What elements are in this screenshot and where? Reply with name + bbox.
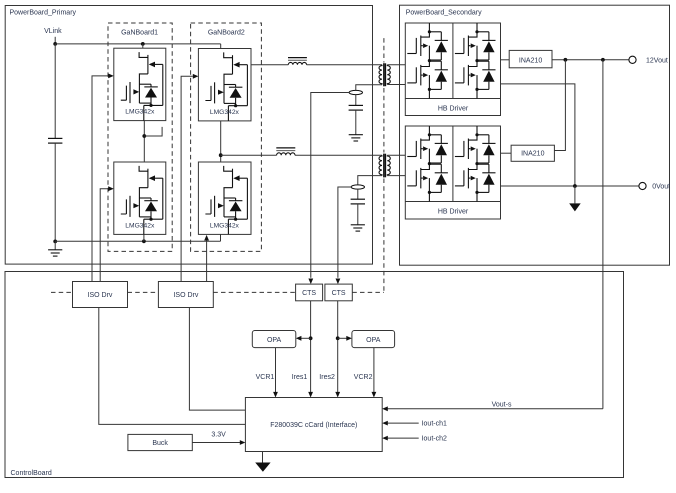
wire C1 to ground (355, 110, 357, 135)
wire gate D (ISO2 to L2) (206, 240, 208, 282)
wire inductor Lb to T2 primary (295, 154, 382, 156)
OPA2 input arrowhead (346, 336, 352, 341)
OPA1 input arrowhead (296, 336, 302, 341)
wire Buck 3.3V to F28 (192, 442, 241, 444)
GaNBoard2 dashed box (191, 23, 262, 251)
wire phase2 node to inductor Lb (221, 154, 277, 156)
isolation boundary dashed vertical seg3 (383, 179, 385, 293)
svg-text:HB Driver: HB Driver (438, 208, 469, 215)
transformer T1 (379, 65, 382, 85)
gate B arrowhead (108, 186, 114, 191)
Iout-ch1 arrowhead (382, 421, 388, 426)
svg-text:PowerBoard_Primary: PowerBoard_Primary (10, 9, 77, 16)
node 12V rail dot B (601, 58, 605, 62)
wire ISO1 to F28 (PWM1) (99, 308, 246, 425)
wire VLink left rail upper (54, 44, 56, 138)
svg-text:VCR1: VCR1 (256, 374, 275, 381)
terminal 12Vout circle (629, 56, 636, 63)
inductor Lb (277, 153, 295, 155)
transistor U2 LMG342x box (GaNBoard2 high-side) (198, 49, 251, 121)
VCR2 arrowhead into F28 (372, 392, 377, 398)
wire LMG L1 bottom stub (143, 234, 145, 241)
capacitor C1 series (349, 105, 363, 110)
node rail-to-Q1 dot (141, 42, 145, 46)
transistor L1 LMG342x box (GaNBoard1 low-side) (114, 162, 166, 234)
current transformer CT1 ellipse (349, 90, 362, 94)
wire gate B (ISO1 to L1) (100, 189, 108, 282)
wire inductor La to T1 primary (307, 64, 382, 66)
ControlBoard board outline (5, 272, 624, 478)
GaNBoard1 dashed box (108, 23, 172, 251)
VLink stub above node (54, 37, 56, 44)
ground 0V arrow (569, 203, 581, 211)
svg-text:VLink: VLink (44, 28, 62, 35)
svg-text:Iout-ch2: Iout-ch2 (422, 436, 447, 443)
wire phase1 kelvin hook (144, 127, 162, 136)
wire OPA1 to F28 (VCR1) (275, 348, 277, 393)
PowerBoard_Secondary board outline (400, 5, 670, 265)
PowerBoard_Primary board outline (5, 6, 372, 265)
svg-text:OPA: OPA (267, 337, 282, 344)
wire F28 ground stub (262, 452, 264, 464)
wire T1 secondary top (387, 64, 405, 66)
gate C arrowhead (193, 74, 199, 79)
svg-text:CTS: CTS (302, 290, 316, 297)
Ires1 arrowhead into F28 (308, 392, 313, 398)
wire T1 primary return (356, 85, 382, 91)
wire Iout-ch1 (387, 422, 419, 424)
CTS1 input arrowhead (308, 279, 313, 285)
CTS2 input arrowhead (336, 279, 341, 285)
isolation boundary dashed horizontal seg2 (128, 291, 159, 293)
svg-text:ISO Drv: ISO Drv (88, 292, 113, 299)
wire CTS2 to F28 (Ires2) (337, 301, 339, 393)
svg-text:LMG342x: LMG342x (125, 223, 155, 230)
HB Driver block 1 outline (405, 23, 500, 116)
wire rail drop to LMG U1 (142, 44, 144, 48)
svg-text:LMG342x: LMG342x (210, 223, 240, 230)
wire CT1 sense to CTS1 (311, 93, 349, 278)
svg-text:PowerBoard_Secondary: PowerBoard_Secondary (406, 9, 482, 16)
wire 0V rail (501, 185, 639, 187)
inductor La (288, 62, 306, 64)
ground VLink (48, 250, 62, 256)
svg-text:Ires2: Ires2 (319, 374, 335, 381)
INA210 #2 box (511, 145, 554, 161)
transistor L2 internals (205, 166, 247, 235)
wire VLink top rail (55, 43, 221, 45)
node 0V rail dot (573, 184, 577, 188)
wire OPA2 to F28 (VCR2) (373, 348, 375, 393)
wire branch to OPA1 (300, 337, 311, 339)
svg-text:Vout-s: Vout-s (492, 402, 512, 409)
wire rail drop to LMG U2 (220, 44, 222, 49)
wire phase2 switch node vertical (220, 121, 222, 162)
gate A arrowhead (108, 74, 114, 79)
wire T2 secondary bottom (387, 175, 405, 177)
HB1 label strip line (405, 98, 500, 100)
Vout-s arrowhead into F28 (382, 406, 388, 411)
wire ISO2 to F28 (PWM2) (189, 308, 245, 411)
HB2 cell1 half-bridge FETs (428, 126, 430, 135)
wire CT1 below (355, 95, 357, 106)
svg-text:CTS: CTS (332, 290, 346, 297)
wire C2 to ground (357, 204, 359, 225)
node phase2 switch dot (219, 153, 223, 157)
wire 12V rail (552, 59, 629, 61)
wire branch to OPA2 (338, 337, 348, 339)
node bottom rail Q-leg dot (142, 239, 146, 243)
Buck box (128, 434, 192, 450)
HB1 cell divider (452, 23, 454, 99)
node 12V rail dot A (564, 58, 568, 62)
HB2 label strip line (405, 201, 500, 203)
isolation boundary dashed vertical seg2 (383, 88, 385, 153)
HB1 cell1 half-bridge FETs (428, 23, 430, 32)
svg-text:VCR2: VCR2 (354, 374, 373, 381)
transistor U2 internals (205, 52, 247, 121)
wire bottom return rail (55, 240, 220, 242)
HB2 cell2 half-bridge FETs (476, 126, 478, 135)
ground G2 (351, 225, 365, 231)
svg-text:GaNBoard1: GaNBoard1 (121, 30, 158, 37)
3.3V arrowhead (240, 440, 246, 445)
CTS2 box (325, 284, 352, 301)
svg-text:0Vout: 0Vout (652, 184, 670, 191)
transistor L2 LMG342x box (GaNBoard2 low-side) (198, 162, 251, 234)
INA210 #1 box (509, 50, 552, 67)
Ires2 arrowhead into F28 (335, 392, 340, 398)
transistor L1 internals (121, 166, 163, 235)
svg-text:HB Driver: HB Driver (438, 105, 469, 112)
svg-text:Ires1: Ires1 (292, 374, 308, 381)
isolation boundary dashed vertical seg1 (383, 38, 385, 62)
wire HB1 out to INA210-1 (501, 59, 510, 61)
svg-text:12Vout: 12Vout (646, 57, 668, 64)
wire Vout-s horizontal (387, 408, 603, 410)
ground F28 arrow (255, 463, 270, 472)
svg-text:Iout-ch1: Iout-ch1 (422, 421, 447, 428)
gate D arrowhead (204, 235, 209, 241)
wire HB1 low output (501, 84, 575, 186)
wire 0V ground stub (574, 186, 576, 203)
op-amp OPA2 box (352, 331, 395, 348)
wire CT2 sense to CTS2 (338, 187, 351, 278)
svg-text:OPA: OPA (366, 337, 381, 344)
svg-text:LMG342x: LMG342x (210, 109, 240, 116)
wire VLink left rail lower (54, 143, 56, 241)
wire VLink ground stub (54, 241, 56, 249)
node VLink junction dot (53, 42, 57, 46)
svg-text:Buck: Buck (152, 440, 168, 447)
HB1 cell2 half-bridge FETs (476, 23, 478, 32)
wire CTS1 to F28 (Ires1) (310, 301, 312, 393)
svg-text:3.3V: 3.3V (211, 431, 226, 438)
controller F280039C cCard box (245, 398, 382, 452)
op-amp OPA1 box (252, 331, 295, 348)
ISO Drv 1 box (73, 282, 128, 308)
wire T2 secondary top (387, 154, 405, 156)
wire gate C (ISO2 to U2) (181, 76, 193, 281)
capacitor C_link (48, 138, 62, 143)
capacitor C2 series (351, 199, 365, 204)
current transformer CT2 ellipse (351, 185, 364, 189)
node bottom rail left dot (53, 240, 57, 244)
node phase1 switch dot (142, 134, 146, 138)
CTS1 box (296, 284, 323, 301)
wire phase1 switch node vertical (143, 121, 145, 162)
Iout-ch2 arrowhead (382, 436, 388, 441)
wire U2 source to inductor La (251, 64, 288, 66)
svg-text:ISO Drv: ISO Drv (173, 292, 198, 299)
isolation boundary dashed horizontal seg4 (352, 291, 384, 293)
wire Iout-ch2 (387, 437, 419, 439)
transistor U1 internals (121, 52, 163, 121)
wire CT2 below (357, 189, 359, 199)
ISO Drv 2 box (158, 282, 213, 308)
transistor U1 LMG342x box (GaNBoard1 high-side) (114, 48, 166, 120)
VCR1 arrowhead into F28 (273, 392, 278, 398)
isolation boundary dashed horizontal seg1 (51, 291, 73, 293)
terminal 0Vout circle (639, 182, 646, 189)
wire Vout sense vertical (602, 60, 604, 409)
HB2 cell divider (452, 126, 454, 202)
svg-text:F280039C cCard (Interface): F280039C cCard (Interface) (270, 422, 357, 429)
wire HB2 out to INA210-2 (501, 152, 512, 154)
wire INA210-2 to 12V rail (554, 60, 565, 151)
isolation boundary dashed horizontal seg3 (213, 291, 295, 293)
svg-text:INA210: INA210 (519, 57, 542, 64)
HB Driver block 2 outline (405, 126, 500, 219)
wire rail rise to LMG L2 (220, 234, 222, 241)
transformer T2 (379, 155, 382, 175)
svg-text:ControlBoard: ControlBoard (11, 470, 52, 477)
svg-text:INA210: INA210 (521, 151, 544, 158)
svg-text:GaNBoard2: GaNBoard2 (208, 30, 245, 37)
node Ires2 branch dot (336, 336, 340, 340)
wire T2 primary return (358, 176, 382, 185)
ground G1 (349, 135, 363, 141)
node Ires1 branch dot (309, 336, 313, 340)
wire gate A (ISO1 to U1) (92, 76, 108, 282)
svg-text:LMG342x: LMG342x (125, 109, 155, 116)
wire T1 secondary bottom (387, 84, 405, 86)
